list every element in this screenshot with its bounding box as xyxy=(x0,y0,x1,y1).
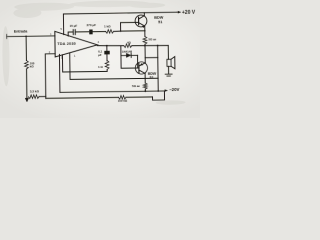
resistor R2 emitter 0,5 ohm xyxy=(143,31,157,46)
node long vertical rail xyxy=(157,90,159,92)
wire -Vs stub down xyxy=(58,54,60,92)
node collector on -20V rail xyxy=(144,90,146,92)
node input/R5 junction xyxy=(25,35,27,37)
wire emitter column to long vertical connector xyxy=(145,57,158,59)
speaker LS1 xyxy=(167,45,175,74)
label BDW 51 xyxy=(154,16,164,25)
wire stub mid to -20V line xyxy=(70,52,158,80)
resistor R9 zobel 1 ohm xyxy=(98,53,109,71)
wire feedback jog to -20V node xyxy=(152,91,164,100)
node output to long vertical xyxy=(157,45,159,47)
svg-text:4Ω: 4Ω xyxy=(127,41,132,45)
svg-text:1N4148: 1N4148 xyxy=(122,49,133,53)
svg-text:1 kΩ: 1 kΩ xyxy=(104,24,111,28)
wire pin2 feedback vertical xyxy=(45,54,55,99)
svg-text:4: 4 xyxy=(98,40,100,44)
input terminal Entrada xyxy=(7,30,29,39)
diode D1 1N4148 xyxy=(121,49,138,57)
node emitter column xyxy=(144,45,146,47)
capacitor C3 zobel 0,1 uF xyxy=(98,46,110,57)
transistor Q1 BDW 51 xyxy=(135,13,147,31)
svg-text:1 Ω: 1 Ω xyxy=(98,65,103,69)
svg-text:kΩ: kΩ xyxy=(30,64,35,68)
wire pin3 stub to zobel ground xyxy=(62,54,107,72)
power +20V arrow and label xyxy=(177,10,196,16)
svg-text:270 µF: 270 µF xyxy=(87,23,97,27)
capacitor C2 270uF xyxy=(87,23,97,34)
wire to Q1 base xyxy=(121,22,139,31)
resistor R6 3,3 k ohm to feedback node xyxy=(28,89,45,98)
wire pin5 stub to +V rail xyxy=(62,14,64,35)
wire long vertical output to rails xyxy=(157,46,160,91)
svg-text:5: 5 xyxy=(60,27,62,31)
svg-text:µF: µF xyxy=(98,53,102,57)
wire feedback bus bottom xyxy=(46,97,153,98)
wire -20V rail xyxy=(60,91,164,92)
svg-text:100 kΩ: 100 kΩ xyxy=(118,99,128,103)
scan artifact blobs (decorative) xyxy=(2,0,186,107)
wire chain to Q1 emitter line xyxy=(121,30,145,32)
svg-text:Entrada: Entrada xyxy=(14,30,28,34)
resistor R1 1 k ohm xyxy=(104,24,114,33)
wire top chain from pin5 area xyxy=(68,31,121,36)
svg-text:52: 52 xyxy=(149,76,153,80)
resistor R5 100k input to ground xyxy=(24,36,35,98)
svg-text:3,3 kΩ: 3,3 kΩ xyxy=(30,89,40,93)
svg-text:−20V: −20V xyxy=(169,87,179,92)
resistor R3 collector 0,5 ohm xyxy=(132,73,147,91)
wire +20V top rail xyxy=(63,12,176,14)
op-amp U1 TDA 2030 xyxy=(55,31,98,57)
svg-text:+20 V: +20 V xyxy=(182,10,196,16)
svg-text:15 µF: 15 µF xyxy=(70,24,78,28)
node chain/base junction xyxy=(120,30,122,32)
ground bar under speaker xyxy=(165,74,172,76)
wire base feed vertical A xyxy=(121,45,139,68)
ground arrow under R5 xyxy=(25,98,28,102)
node zobel tap xyxy=(106,45,108,47)
resistor R8 4,7 ohm on output xyxy=(124,41,132,48)
resistor R7 100 k ohm feedback xyxy=(118,95,128,102)
power -20V arrow and label xyxy=(165,87,180,92)
svg-text:5Ω ᴀᴇ: 5Ω ᴀᴇ xyxy=(132,84,140,88)
wire Q2 emitter up to output node xyxy=(144,46,146,63)
svg-text:BDW: BDW xyxy=(154,16,164,20)
svg-text:51: 51 xyxy=(158,20,162,24)
capacitor C1 15uF xyxy=(70,24,78,35)
transistor Q2 BDW 52 xyxy=(135,62,147,74)
wire input line xyxy=(7,35,55,38)
wire diode right leg down xyxy=(137,55,139,68)
wire output line H4 xyxy=(97,45,168,47)
svg-text:5Ω ᴀᴇ: 5Ω ᴀᴇ xyxy=(148,37,156,41)
svg-text:TDA 2030: TDA 2030 xyxy=(57,42,76,46)
label BDW 52 xyxy=(148,72,157,80)
svg-text:1: 1 xyxy=(74,54,76,58)
